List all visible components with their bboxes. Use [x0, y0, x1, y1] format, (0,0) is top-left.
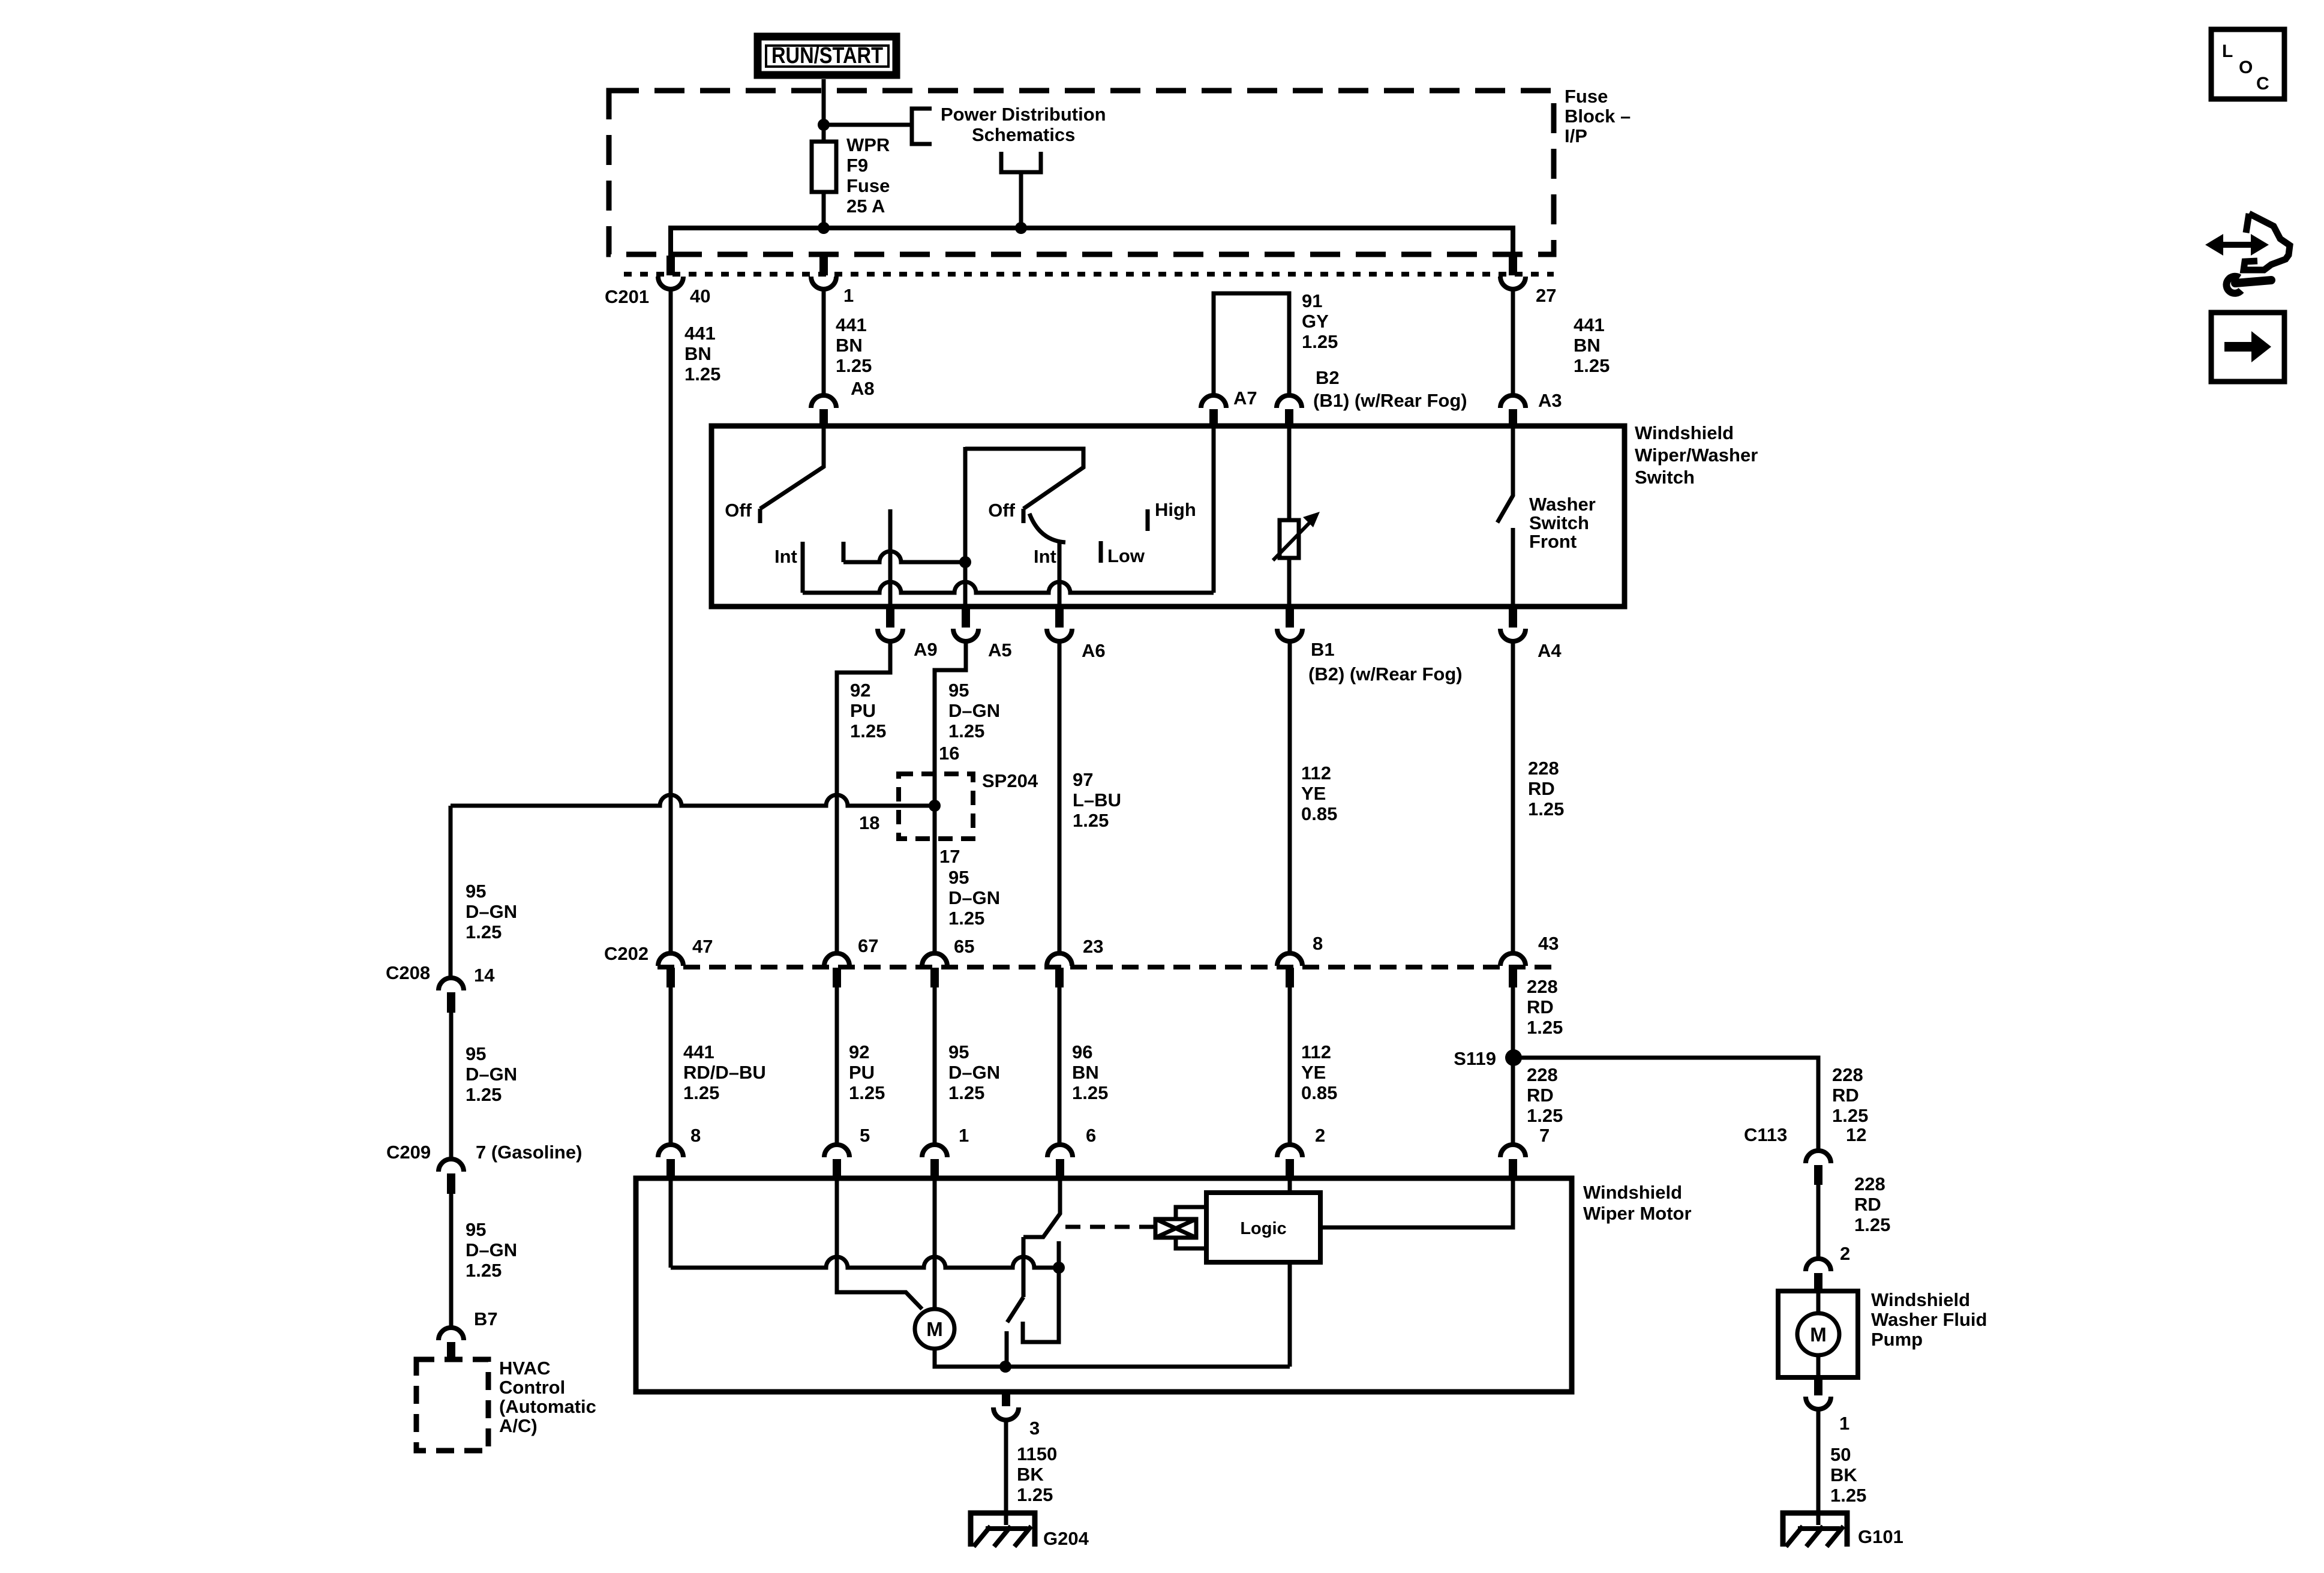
svg-text:BK: BK	[1017, 1464, 1044, 1485]
svg-text:67: 67	[858, 935, 878, 956]
svg-text:1: 1	[1839, 1413, 1849, 1434]
svg-text:A7: A7	[1233, 388, 1257, 409]
wire 228 RD from A4	[1511, 641, 1515, 952]
middle wiper switch Off blade	[965, 449, 1083, 509]
junction dot above fuse	[818, 119, 830, 131]
svg-text:Windshield: Windshield	[1635, 422, 1734, 443]
splice S119 junction dot	[1505, 1049, 1522, 1066]
wire 228 RD C113 to pump	[1816, 1185, 1821, 1259]
connector pin A5 at switch box bottom	[953, 607, 978, 641]
connector pin B7 HVAC	[439, 1328, 464, 1362]
svg-text:1.25: 1.25	[948, 1082, 984, 1103]
svg-text:1.25: 1.25	[466, 1260, 502, 1281]
svg-text:1.25: 1.25	[1302, 331, 1338, 352]
diagnostic icon double arrow	[2205, 234, 2269, 256]
svg-text:L–BU: L–BU	[1073, 789, 1121, 810]
svg-text:Front: Front	[1529, 531, 1577, 552]
connector C208 pin 14	[439, 978, 464, 1013]
wire 1150 BK to G204	[1004, 1420, 1008, 1525]
svg-text:2: 2	[1840, 1243, 1850, 1264]
svg-text:BN: BN	[1574, 335, 1601, 356]
svg-text:Power Distribution: Power Distribution	[941, 104, 1106, 125]
label 112 YE 0.85	[1301, 763, 1337, 824]
svg-text:1: 1	[843, 285, 854, 306]
wire 228 RD C202-43 to S119	[1511, 987, 1515, 1058]
svg-text:1.25: 1.25	[1527, 1105, 1563, 1126]
connector C201 pin 1	[811, 256, 836, 289]
mechanical linkage dashed	[1065, 1225, 1154, 1229]
label 95 D-GN 1.25 below SP204	[948, 867, 1000, 929]
junction dot common rail	[999, 1361, 1011, 1373]
svg-text:95: 95	[948, 867, 969, 888]
svg-text:Windshield: Windshield	[1583, 1182, 1682, 1203]
label 441 BN 1.25 (pin 27)	[1574, 314, 1610, 376]
svg-text:Pump: Pump	[1871, 1329, 1923, 1350]
svg-text:0.85: 0.85	[1301, 803, 1337, 824]
connector motor pin 8	[658, 1145, 683, 1179]
diagnostic icon wrench	[2226, 277, 2271, 293]
svg-text:C209: C209	[386, 1142, 431, 1163]
ground G101	[1783, 1513, 1847, 1547]
svg-text:C201: C201	[605, 286, 649, 307]
wire 95 D-GN C208 to C209	[449, 1013, 454, 1158]
svg-text:7 (Gasoline): 7 (Gasoline)	[476, 1142, 582, 1163]
loop wire A7 to B2 with 91 GY	[1214, 293, 1289, 395]
svg-text:65: 65	[954, 936, 974, 957]
wire Logic to common rail	[1288, 1262, 1292, 1367]
park switch alternate contact hook	[1023, 1241, 1059, 1342]
svg-text:1.25: 1.25	[1574, 355, 1610, 376]
splice junction dot SP204	[929, 800, 941, 812]
connector motor pin 2	[1277, 1145, 1302, 1179]
branch wire 95 D-GN to left column	[451, 795, 935, 806]
svg-text:RD/D–BU: RD/D–BU	[683, 1062, 766, 1083]
svg-text:O: O	[2239, 58, 2253, 77]
svg-text:(Automatic: (Automatic	[499, 1396, 596, 1417]
svg-text:(B2) (w/Rear Fog): (B2) (w/Rear Fog)	[1308, 664, 1463, 685]
label 441 BN 1.25 (pin 40)	[684, 323, 720, 385]
svg-text:441: 441	[836, 314, 867, 335]
svg-text:C113: C113	[1744, 1124, 1787, 1145]
svg-text:Off: Off	[725, 500, 752, 521]
label Windshield Wiper Motor	[1583, 1182, 1692, 1224]
svg-text:PU: PU	[850, 700, 876, 721]
svg-text:G101: G101	[1858, 1526, 1903, 1547]
svg-text:441: 441	[684, 323, 716, 344]
svg-text:C: C	[2256, 74, 2269, 94]
wire pin 1 to motor	[933, 1178, 937, 1309]
wire 228 RD S119 to motor pin 7	[1511, 1058, 1515, 1146]
svg-text:96: 96	[1072, 1041, 1092, 1062]
svg-text:40: 40	[690, 286, 710, 307]
svg-text:47: 47	[692, 936, 713, 957]
svg-text:A8: A8	[851, 378, 875, 399]
svg-text:Wiper/Washer: Wiper/Washer	[1635, 445, 1758, 466]
label 228 RD 1.25 below C113	[1854, 1173, 1890, 1235]
svg-text:G204: G204	[1043, 1528, 1089, 1549]
svg-text:1.25: 1.25	[684, 364, 720, 385]
svg-text:1.25: 1.25	[1073, 810, 1109, 831]
left wiper switch blade from A8	[760, 427, 824, 509]
svg-text:Schematics: Schematics	[972, 124, 1075, 145]
wire 441 BN from C201-1 to A8	[822, 289, 826, 395]
svg-text:228: 228	[1528, 758, 1559, 779]
wire contact to common rail	[1005, 1349, 1009, 1367]
svg-text:Switch: Switch	[1635, 467, 1695, 488]
svg-text:RUN/START: RUN/START	[771, 43, 883, 68]
svg-text:0.85: 0.85	[1301, 1082, 1337, 1103]
svg-text:16: 16	[939, 743, 959, 764]
label 228 RD 1.25 right branch	[1832, 1064, 1868, 1126]
svg-text:1.25: 1.25	[948, 721, 984, 742]
svg-text:1.25: 1.25	[1854, 1214, 1890, 1235]
svg-text:A5: A5	[988, 640, 1012, 661]
svg-text:1150: 1150	[1017, 1443, 1057, 1464]
svg-text:BN: BN	[1072, 1062, 1099, 1083]
svg-text:1.25: 1.25	[1528, 798, 1564, 819]
wire Logic to pin 7	[1320, 1178, 1513, 1227]
svg-text:C202: C202	[604, 943, 648, 964]
wire S119 branch to C113	[1514, 1058, 1818, 1151]
diagnostic icon animal head outline	[2244, 214, 2290, 270]
svg-text:B7: B7	[474, 1308, 498, 1329]
ground G204	[971, 1513, 1035, 1547]
svg-text:18: 18	[859, 812, 879, 833]
svg-text:50: 50	[1830, 1444, 1851, 1465]
second contact tick and upper rail to A5	[842, 542, 846, 562]
connector C202 pin 23	[1047, 953, 1072, 987]
svg-text:A3: A3	[1538, 390, 1562, 411]
wire RUN/START to fuse	[822, 79, 826, 142]
svg-text:92: 92	[849, 1041, 869, 1062]
svg-text:97: 97	[1073, 769, 1093, 790]
svg-text:Logic: Logic	[1240, 1219, 1286, 1238]
connector C202 pin 65	[922, 953, 947, 987]
svg-text:Int: Int	[774, 546, 797, 567]
Windshield Wiper Motor box	[636, 1178, 1572, 1392]
High contact tick	[1146, 509, 1150, 531]
wire fuse to bus	[822, 192, 826, 228]
label 92 PU 1.25 lower	[849, 1041, 885, 1103]
svg-text:95: 95	[466, 1219, 486, 1240]
svg-text:1.25: 1.25	[1830, 1485, 1866, 1506]
label 50 BK 1.25	[1830, 1444, 1866, 1506]
svg-text:YE: YE	[1301, 1062, 1326, 1083]
connector C201 pin 27	[1500, 256, 1526, 289]
label 96 BN 1.25	[1072, 1041, 1108, 1103]
svg-text:High: High	[1155, 499, 1196, 520]
park switch blade from pin 6	[1023, 1178, 1060, 1237]
label Windshield Wiper/Washer Switch	[1635, 422, 1758, 488]
svg-text:95: 95	[466, 881, 486, 902]
svg-text:S119: S119	[1454, 1048, 1496, 1069]
svg-text:441: 441	[683, 1041, 714, 1062]
svg-text:228: 228	[1527, 976, 1558, 997]
svg-text:228: 228	[1832, 1064, 1863, 1085]
svg-text:1.25: 1.25	[1017, 1484, 1053, 1505]
label 95 D-GN 1.25 (16)	[948, 680, 1000, 742]
connector line C201 dotted	[624, 272, 1554, 277]
Low contact tick	[1099, 541, 1103, 563]
svg-text:M: M	[926, 1318, 943, 1340]
wire 92 PU C202-67 to motor pin 5	[835, 987, 839, 1146]
label 95 D-GN 1.25 lower	[948, 1041, 1000, 1103]
wire 50 BK to G101	[1816, 1409, 1821, 1525]
middle switch curved blade to Int	[1029, 514, 1065, 542]
svg-text:95: 95	[948, 1041, 969, 1062]
solenoid coil box with X	[1155, 1207, 1206, 1248]
svg-text:228: 228	[1527, 1064, 1558, 1085]
svg-text:1.25: 1.25	[948, 908, 984, 929]
svg-text:B1: B1	[1311, 639, 1335, 660]
svg-text:1: 1	[959, 1125, 969, 1146]
svg-text:228: 228	[1854, 1173, 1885, 1194]
svg-text:92: 92	[850, 680, 870, 701]
wire pin 5 to motor brush	[837, 1178, 922, 1309]
forward arrow legend box	[2211, 313, 2284, 382]
svg-text:1.25: 1.25	[466, 921, 502, 942]
connector pump pin 1	[1806, 1377, 1831, 1409]
svg-text:B2: B2	[1316, 367, 1340, 388]
svg-text:D–GN: D–GN	[466, 1064, 517, 1085]
svg-text:D–GN: D–GN	[948, 1062, 1000, 1083]
svg-text:6: 6	[1086, 1125, 1096, 1146]
svg-text:Windshield: Windshield	[1871, 1289, 1970, 1310]
connector pin B2 at switch box top	[1277, 395, 1302, 427]
splice SP204 dashed box	[899, 774, 973, 839]
svg-text:14: 14	[474, 965, 495, 986]
left Off contact tick	[758, 509, 762, 523]
label HVAC Control (Automatic A/C)	[499, 1358, 596, 1436]
junction dot cup-bus	[1015, 222, 1027, 234]
wire A6 inside box	[1058, 542, 1062, 607]
wire 92 PU from A9 jog	[837, 641, 890, 952]
svg-text:7: 7	[1539, 1125, 1550, 1146]
svg-text:I/P: I/P	[1565, 125, 1587, 146]
connector line C202 dashed	[657, 965, 1554, 969]
svg-text:3: 3	[1029, 1418, 1040, 1439]
washer switch front blade	[1497, 427, 1513, 523]
svg-text:1.25: 1.25	[466, 1084, 502, 1105]
label 112 YE 0.85 lower	[1301, 1041, 1337, 1103]
svg-text:8: 8	[690, 1125, 701, 1146]
wire 112 YE from B1	[1288, 641, 1292, 952]
wire 96 BN C202-23 to motor pin 6	[1058, 987, 1062, 1146]
svg-text:Block –: Block –	[1565, 106, 1631, 127]
label Windshield Washer Fluid Pump	[1871, 1289, 1987, 1350]
connector pin A3 at switch box top	[1500, 395, 1526, 427]
bracket symbol Power Distribution	[912, 109, 932, 144]
wire 441 BN from C201-40	[669, 289, 673, 952]
wire 95 D-GN C202-65 to motor pin 1	[933, 987, 937, 1146]
svg-text:91: 91	[1302, 290, 1322, 311]
label WPR F9 Fuse 25 A	[846, 134, 890, 217]
svg-text:1.25: 1.25	[1527, 1017, 1563, 1038]
svg-text:WPR: WPR	[846, 134, 890, 155]
connector pin A9 at switch box bottom	[878, 607, 903, 641]
svg-text:Wiper Motor: Wiper Motor	[1583, 1203, 1692, 1224]
connector pump pin 2	[1806, 1259, 1831, 1293]
svg-text:1.25: 1.25	[836, 355, 872, 376]
junction dot upper rail at A5	[959, 556, 971, 568]
svg-text:D–GN: D–GN	[948, 700, 1000, 721]
svg-text:Switch: Switch	[1529, 512, 1589, 533]
motor M circle	[915, 1309, 954, 1349]
wire to schematic bracket	[824, 123, 912, 127]
wire cup to bus	[1019, 172, 1023, 228]
wire down to C208	[449, 806, 453, 978]
svg-text:Off: Off	[988, 500, 1015, 521]
svg-text:A6: A6	[1082, 640, 1106, 661]
Windshield Washer Fluid Pump box	[1778, 1291, 1858, 1377]
connector C202 pin 8	[1277, 953, 1302, 987]
svg-text:(B1) (w/Rear Fog): (B1) (w/Rear Fog)	[1313, 390, 1467, 411]
connector pin A7 at switch box top	[1201, 395, 1226, 427]
Windshield Wiper/Washer Switch box	[711, 426, 1625, 607]
LOC legend box	[2211, 29, 2284, 99]
svg-text:RD: RD	[1528, 778, 1555, 799]
svg-text:C208: C208	[386, 962, 430, 983]
svg-text:12: 12	[1846, 1124, 1866, 1145]
svg-text:2: 2	[1315, 1125, 1325, 1146]
variable resistor on B2-B1 wire	[1273, 427, 1320, 607]
svg-text:Washer Fluid: Washer Fluid	[1871, 1309, 1987, 1330]
connector pin B1 at switch box bottom	[1277, 607, 1302, 641]
connector motor pin 1	[922, 1145, 947, 1179]
svg-text:43: 43	[1538, 933, 1559, 954]
wire 95 D-GN from A5 jog through SP204	[935, 641, 966, 952]
label 92 PU 1.25	[850, 680, 886, 742]
svg-text:A9: A9	[914, 639, 938, 660]
svg-text:95: 95	[466, 1043, 486, 1064]
svg-text:D–GN: D–GN	[466, 1239, 517, 1260]
label 95 D-GN 1.25 left top	[466, 881, 517, 942]
connector C113 pin 12	[1806, 1151, 1831, 1185]
svg-text:D–GN: D–GN	[948, 887, 1000, 908]
wire A5 inside box	[963, 447, 968, 607]
svg-text:A/C): A/C)	[499, 1415, 538, 1436]
svg-text:SP204: SP204	[982, 770, 1038, 791]
svg-text:25 A: 25 A	[846, 196, 885, 217]
svg-text:1.25: 1.25	[1832, 1105, 1868, 1126]
svg-text:1.25: 1.25	[683, 1082, 719, 1103]
svg-text:D–GN: D–GN	[466, 901, 517, 922]
connector pin A4 at switch box bottom	[1500, 607, 1526, 641]
wire pin 8 to park rail	[669, 1178, 673, 1268]
svg-text:BK: BK	[1830, 1464, 1857, 1485]
svg-text:23: 23	[1083, 936, 1103, 957]
svg-text:1.25: 1.25	[849, 1082, 885, 1103]
svg-text:HVAC: HVAC	[499, 1358, 551, 1379]
wire 441 BN from C201-27 to A3	[1511, 289, 1515, 395]
svg-text:RD: RD	[1832, 1085, 1859, 1106]
svg-text:1.25: 1.25	[1072, 1082, 1108, 1103]
label Power Distribution Schematics	[941, 104, 1106, 145]
svg-text:Washer: Washer	[1529, 494, 1596, 515]
svg-text:17: 17	[939, 846, 960, 867]
wire 441 RD/D-BU C202-47 to motor pin 8	[669, 987, 673, 1146]
fuse WPR F9 25A	[812, 142, 836, 192]
svg-text:L: L	[2222, 41, 2233, 61]
svg-text:112: 112	[1301, 1041, 1331, 1062]
connector C201 pin 40	[658, 256, 683, 289]
label 95 D-GN 1.25 low	[466, 1219, 517, 1281]
wire 112 YE C202-8 to motor pin 2	[1288, 987, 1292, 1146]
svg-text:BN: BN	[836, 335, 863, 356]
park switch pivot wire	[1022, 1237, 1026, 1297]
svg-text:GY: GY	[1302, 311, 1329, 332]
wire pin 2 to Logic	[1288, 1178, 1292, 1193]
svg-text:Fuse: Fuse	[1565, 86, 1608, 107]
svg-text:5: 5	[860, 1125, 870, 1146]
label Washer Switch Front	[1529, 494, 1596, 552]
wire A7 down to lower rail	[1212, 427, 1216, 593]
svg-text:1.25: 1.25	[850, 721, 886, 742]
svg-text:441: 441	[1574, 314, 1605, 335]
left Int contact and lower rail to A7	[803, 582, 1214, 593]
svg-text:95: 95	[948, 680, 969, 701]
svg-text:Low: Low	[1107, 545, 1145, 566]
connector motor pin 3	[993, 1392, 1019, 1420]
wire 97 L-BU from A6	[1058, 641, 1062, 952]
svg-text:RD: RD	[1854, 1194, 1881, 1215]
connector motor pin 5	[824, 1145, 849, 1179]
svg-text:RD: RD	[1527, 996, 1554, 1017]
label 228 RD 1.25 above C202-43	[1528, 758, 1564, 819]
park switch moving blade	[1007, 1297, 1023, 1322]
label 228 RD 1.25 below S119	[1527, 1064, 1563, 1126]
Fuse Block - I/P dashed box	[609, 91, 1554, 254]
svg-text:YE: YE	[1301, 783, 1326, 804]
label 95 D-GN 1.25 mid	[466, 1043, 517, 1105]
label 97 L-BU 1.25	[1073, 769, 1121, 831]
svg-text:8: 8	[1313, 933, 1323, 954]
connector C202 pin 43	[1500, 953, 1526, 987]
junction dot fuse-bus	[818, 222, 830, 234]
Logic box	[1206, 1193, 1320, 1262]
pump motor M circle	[1797, 1293, 1839, 1377]
label 228 RD 1.25 above S119	[1527, 976, 1563, 1038]
bus wire in fuse block	[671, 228, 1513, 256]
label 91 GY 1.25	[1302, 290, 1338, 352]
connector C202 pin 67	[824, 953, 849, 987]
svg-text:M: M	[1810, 1323, 1827, 1346]
connector pin A8 at switch box top	[811, 395, 836, 427]
svg-text:RD: RD	[1527, 1085, 1554, 1106]
page-link cup symbol under Schematics	[1001, 152, 1041, 172]
label 441 RD/D-BU 1.25	[683, 1041, 766, 1103]
svg-text:PU: PU	[849, 1062, 875, 1083]
HVAC Control dashed box	[416, 1359, 488, 1451]
wire motor to common rail	[935, 1349, 1290, 1367]
svg-text:Control: Control	[499, 1377, 565, 1398]
label 1150 BK 1.25	[1017, 1443, 1057, 1505]
park rail with hops	[671, 1257, 1059, 1268]
svg-text:27: 27	[1536, 285, 1556, 306]
label Fuse Block - I/P	[1565, 86, 1631, 146]
washer switch contact wire to A4	[1511, 528, 1515, 607]
connector C209 pin 7	[439, 1159, 464, 1194]
middle Off contact tick	[1022, 509, 1026, 523]
wire A9 stub inside box	[888, 509, 893, 607]
junction dot park rail	[1053, 1262, 1065, 1274]
svg-text:F9: F9	[846, 155, 868, 176]
svg-text:112: 112	[1301, 763, 1331, 784]
svg-text:BN: BN	[684, 343, 711, 364]
RUN/START hot-in-run feed box	[758, 37, 896, 75]
wire 95 D-GN C209 to B7	[449, 1194, 454, 1328]
connector motor pin 6	[1047, 1145, 1073, 1179]
